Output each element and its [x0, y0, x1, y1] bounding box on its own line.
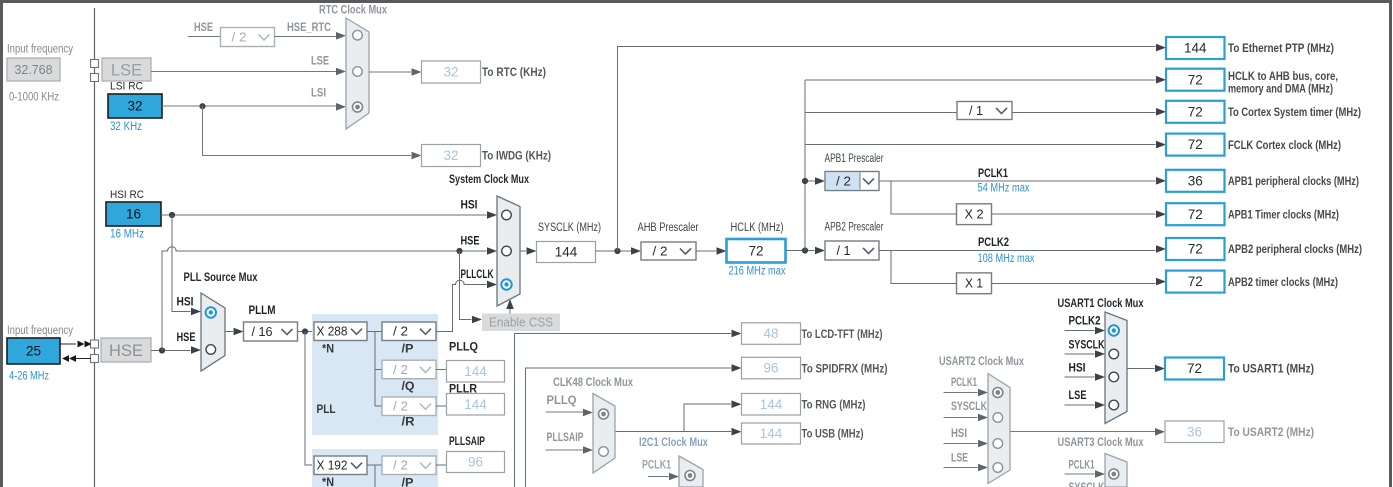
USART1 clock mux	[1105, 312, 1127, 424]
svg-text:PLLM: PLLM	[249, 305, 276, 317]
label *N (pllsai)	[322, 477, 334, 487]
label SYSCLK (usart3, clipped)	[1069, 482, 1106, 487]
label PCLK2	[978, 237, 1009, 249]
label HSI (usart2)	[951, 428, 967, 440]
label 108 MHz max	[978, 253, 1035, 265]
label HSI RC	[110, 189, 144, 201]
svg-text:Enable CSS: Enable CSS	[489, 315, 553, 330]
svg-text:LSE: LSE	[311, 56, 329, 68]
svg-text:LSE: LSE	[951, 453, 968, 465]
svg-text:To Ethernet PTP (MHz): To Ethernet PTP (MHz)	[1228, 41, 1334, 55]
wire PLLM down to PLLSAI	[305, 332, 314, 466]
svg-text:To USART2 (MHz): To USART2 (MHz)	[1228, 425, 1314, 439]
label APB1 Timer clocks (MHz)	[1228, 207, 1339, 221]
svg-text:HCLK (MHz): HCLK (MHz)	[731, 222, 784, 234]
label To Ethernet PTP (MHz)	[1228, 41, 1334, 55]
svg-text:32: 32	[127, 99, 142, 114]
svg-text:PLLCLK: PLLCLK	[461, 269, 495, 281]
wire HSI to usart1 mux	[1065, 373, 1106, 381]
junction LSI branch	[199, 103, 205, 109]
svg-text:HSI: HSI	[461, 200, 478, 212]
svg-text:/ 2: / 2	[393, 459, 408, 473]
USART3 clock mux	[1105, 454, 1127, 487]
divider APB2 /1	[825, 241, 879, 260]
label PLLCLK	[461, 269, 495, 281]
wire X1 to timer box	[992, 278, 1167, 286]
label To Cortex System timer (MHz)	[1228, 105, 1361, 119]
LSI RC box 32	[108, 94, 162, 118]
wire PCLK2 to usart1 mux	[1065, 327, 1106, 335]
svg-text:16 MHz: 16 MHz	[110, 229, 144, 241]
wire HCLK to cortex divider	[805, 111, 957, 113]
svg-text:36: 36	[1187, 424, 1202, 439]
svg-text:HSE_RTC: HSE_RTC	[287, 22, 331, 34]
svg-text:/ 2: / 2	[393, 400, 408, 414]
wire APB1 to peripheral box	[879, 177, 1166, 185]
label /P (pllsai, clipped)	[402, 478, 414, 487]
svg-text:LSE: LSE	[1069, 390, 1087, 402]
junction PLLM output	[302, 328, 308, 334]
label Input frequency (LSE)	[7, 44, 73, 56]
svg-text:SYSCLK (MHz): SYSCLK (MHz)	[538, 222, 601, 234]
divider PLLP /2	[382, 322, 436, 341]
HSI RC box 16	[106, 202, 161, 226]
svg-text:/ 1: / 1	[837, 244, 851, 258]
label LSE (rtc input)	[311, 56, 329, 68]
svg-text:32: 32	[443, 148, 458, 163]
multiplier X 1	[957, 273, 992, 294]
svg-text:To IWDG (KHz): To IWDG (KHz)	[482, 149, 551, 163]
wire CLK48 to RNG	[684, 400, 742, 431]
wire HCLK to AHB bus box	[805, 76, 1166, 84]
svg-text:PCLK1: PCLK1	[978, 168, 1008, 180]
svg-text:To LCD-TFT (MHz): To LCD-TFT (MHz)	[802, 327, 883, 341]
svg-text:X 288: X 288	[317, 325, 348, 339]
wire HSE_RTC to rtc mux	[275, 32, 347, 40]
svg-text:108 MHz max: 108 MHz max	[978, 253, 1035, 265]
label 0-1000 KHz	[9, 92, 59, 104]
wire HCLK to FCLK box	[805, 141, 1166, 149]
divider PLLR /2	[382, 397, 436, 416]
svg-text:72: 72	[1188, 72, 1203, 87]
wire PLLSAIN to dividers	[367, 465, 382, 487]
divider PLLM /16	[244, 322, 298, 341]
svg-text:To RTC (KHz): To RTC (KHz)	[482, 65, 546, 79]
label LSE (usart1)	[1069, 390, 1087, 402]
title USART3 Clock Mux	[1058, 435, 1144, 449]
label HSE_RTC	[287, 22, 331, 34]
label To USART1 (MHz)	[1228, 362, 1314, 376]
svg-text:96: 96	[763, 361, 778, 376]
divider APB1 /2	[825, 172, 879, 191]
svg-text:SYSCLK: SYSCLK	[951, 401, 988, 413]
label HSE (rtc stub)	[194, 22, 213, 34]
svg-text:HSE: HSE	[109, 342, 143, 360]
label HCLK to AHB bus, core,	[1228, 69, 1338, 96]
svg-text:memory and DMA (MHz): memory and DMA (MHz)	[1228, 82, 1333, 96]
USART2 clock mux	[988, 374, 1010, 484]
label To RNG (MHz)	[802, 398, 866, 412]
wire Enable CSS to system mux	[506, 299, 514, 314]
label FCLK Cortex clock (MHz)	[1228, 138, 1341, 152]
junction HSE branch	[159, 347, 165, 353]
LSE connection handle top	[91, 60, 99, 68]
svg-text:/ 2: / 2	[836, 174, 851, 188]
svg-text:HSE: HSE	[194, 22, 213, 34]
svg-text:Input frequency: Input frequency	[7, 325, 73, 337]
label /Q (pll)	[402, 381, 415, 393]
label To RTC (KHz)	[482, 65, 546, 79]
svg-text:USART1 Clock Mux: USART1 Clock Mux	[1058, 296, 1144, 310]
svg-text:PLLSAIP: PLLSAIP	[547, 432, 584, 444]
wire AHB to HCLK box	[696, 247, 727, 255]
svg-text:APB2 peripheral clocks (MHz): APB2 peripheral clocks (MHz)	[1228, 242, 1362, 256]
divider /2 HSE_RTC	[221, 28, 275, 47]
wire APB1 to X2	[891, 181, 957, 214]
svg-text:PLL Source Mux: PLL Source Mux	[184, 270, 258, 284]
wire X2 to timer box	[992, 210, 1167, 218]
svg-text:HSE: HSE	[177, 332, 196, 344]
divider AHB /2	[641, 242, 696, 260]
wire PLLQ stub to clk48 mux	[546, 409, 594, 417]
output box To RTC	[422, 61, 481, 83]
input box 25	[7, 338, 60, 364]
label PLLSAIP	[449, 436, 485, 448]
svg-text:System Clock Mux: System Clock Mux	[449, 172, 529, 186]
label HSI (sys input)	[461, 200, 478, 212]
label /P (pll)	[402, 344, 414, 356]
svg-text:48: 48	[763, 326, 778, 341]
wire PCLK1 to usart2 mux	[944, 389, 989, 397]
label To LCD-TFT (MHz)	[802, 327, 883, 341]
wire usart2 mux to USART2 box	[1010, 428, 1165, 436]
svg-text:HSI: HSI	[1069, 363, 1086, 375]
Enable CSS button	[482, 314, 560, 332]
svg-text:25: 25	[26, 344, 41, 359]
svg-text:LSI RC: LSI RC	[110, 81, 143, 93]
output box APB1 Timer clocks (MHz)	[1166, 203, 1225, 225]
svg-text:APB1 Timer clocks (MHz): APB1 Timer clocks (MHz)	[1228, 207, 1339, 221]
value box HCLK 72	[727, 239, 786, 263]
svg-text:Input frequency: Input frequency	[7, 44, 73, 56]
title I2C1 Clock Mux	[639, 435, 708, 449]
label SYSCLK (usart1)	[1069, 340, 1106, 352]
label PLLQ (clk48 input)	[547, 395, 577, 407]
label PLLR	[449, 384, 478, 396]
svg-text:32 KHz: 32 KHz	[110, 121, 142, 133]
value box SYSCLK 144	[537, 242, 596, 263]
wire SYSCLK up to ethernet ptp	[618, 44, 1167, 251]
output box APB2 timer clocks (MHz)	[1166, 271, 1225, 293]
value box PLLSAIP 96	[447, 452, 505, 473]
output box To SPIDFRX	[742, 357, 801, 379]
wire HCLK bus up	[804, 80, 806, 251]
svg-text:PLLSAIP: PLLSAIP	[449, 436, 485, 448]
system clock mux	[497, 196, 520, 306]
label HSI (usart1)	[1069, 363, 1086, 375]
svg-text:I2C1 Clock Mux: I2C1 Clock Mux	[639, 435, 708, 449]
svg-text:/ 2: / 2	[653, 244, 668, 258]
label 216 MHz max	[729, 266, 786, 278]
wire HSI down to pll mux	[172, 215, 201, 315]
wire PLLP to system mux (hop over css wire)	[436, 280, 497, 331]
wire PLLSAIP stub to clk48 mux	[546, 446, 594, 454]
wire system mux to SYSCLK box	[520, 247, 537, 255]
label PLLSAIP (clk48 input)	[547, 432, 584, 444]
HSE connection handle top	[91, 340, 99, 348]
svg-text:/R: /R	[402, 417, 416, 429]
wire LSE to usart2 mux	[944, 464, 989, 472]
svg-text:144: 144	[464, 397, 487, 412]
wire SYSCLK to usart2 mux	[944, 414, 989, 422]
title PLL Source Mux	[184, 270, 258, 284]
output box APB2 peripheral clocks (MHz)	[1166, 238, 1225, 260]
svg-text:PCLK1: PCLK1	[951, 377, 977, 389]
svg-text:72: 72	[748, 243, 763, 258]
divider Cortex /1	[957, 102, 1012, 120]
label APB2 Prescaler	[825, 222, 884, 234]
svg-text:16: 16	[126, 207, 141, 222]
svg-text:HSI RC: HSI RC	[110, 189, 144, 201]
wire PLLSAI to LCD-TFT	[515, 330, 742, 487]
label To USB (MHz)	[802, 427, 864, 441]
title USART2 Clock Mux	[939, 354, 1024, 368]
svg-text:PCLK1: PCLK1	[642, 460, 671, 472]
output box To LCD-TFT	[742, 323, 801, 345]
label 54 MHz max	[978, 183, 1030, 195]
label SYSCLK (usart2)	[951, 401, 988, 413]
wire SYSCLK to usart1 mux	[1065, 350, 1106, 358]
wire HSE stub to rtc divider	[188, 36, 221, 38]
label LSI (rtc input)	[311, 88, 326, 100]
output box To IWDG	[422, 145, 481, 167]
svg-text:72: 72	[1188, 207, 1203, 222]
label 16 MHz	[110, 229, 144, 241]
label PCLK1 (i2c1 input)	[642, 460, 671, 472]
multiplier X 2	[957, 204, 992, 225]
wire HSI to system mux	[161, 211, 497, 219]
wire HSE to 25 return	[62, 355, 91, 362]
junction SYSCLK output	[614, 248, 620, 254]
svg-text:*N: *N	[322, 477, 334, 487]
label APB2 peripheral clocks (MHz)	[1228, 242, 1362, 256]
junction HCLK output	[802, 247, 808, 253]
label PLL	[317, 404, 336, 416]
svg-text:144: 144	[555, 245, 578, 260]
title System Clock Mux	[449, 172, 529, 186]
wire CLK48 mux to USB	[615, 428, 742, 436]
svg-text:PLL: PLL	[317, 404, 336, 416]
label To USART2 (MHz)	[1228, 425, 1314, 439]
wire HSI to usart2 mux	[944, 440, 989, 448]
wire PLLM to PLLN	[298, 331, 315, 333]
label PCLK1 (usart3)	[1069, 460, 1095, 472]
svg-text:72: 72	[1188, 274, 1203, 289]
multiplier PLLSAIN X 192	[314, 456, 367, 475]
HSE connection handle bottom	[91, 355, 99, 363]
svg-text:APB2 Prescaler: APB2 Prescaler	[825, 222, 884, 234]
svg-text:0-1000 KHz: 0-1000 KHz	[9, 92, 59, 104]
svg-text:FCLK Cortex clock (MHz): FCLK Cortex clock (MHz)	[1228, 138, 1341, 152]
label APB2 timer clocks (MHz)	[1228, 275, 1338, 289]
wire HSE up to system mux (hop over HSI)	[162, 247, 497, 351]
svg-text:/Q: /Q	[402, 381, 415, 393]
output box HCLK to AHB bus, core,	[1166, 69, 1225, 91]
svg-text:/ 2: / 2	[232, 30, 247, 44]
wire HSE to pll mux	[151, 346, 201, 354]
junction HSI branch	[169, 212, 175, 218]
wire APB2 to X1	[891, 251, 957, 284]
svg-text:/ 2: / 2	[393, 325, 408, 339]
label Input frequency (HSE)	[7, 325, 73, 337]
PLL block background	[312, 314, 438, 435]
svg-text:PCLK1: PCLK1	[1069, 460, 1095, 472]
wire PLLR to box	[436, 405, 447, 407]
label LSE (usart2)	[951, 453, 968, 465]
output box To USART2	[1165, 421, 1224, 443]
svg-text:PCLK2: PCLK2	[978, 237, 1009, 249]
svg-text:PLLQ: PLLQ	[449, 342, 478, 354]
svg-text:X 1: X 1	[965, 277, 983, 291]
output box To RNG	[742, 394, 801, 416]
svg-text:72: 72	[1188, 137, 1203, 152]
label PCLK2 (usart1)	[1069, 316, 1101, 328]
PLL source mux	[201, 293, 225, 371]
CLK48 clock mux	[593, 394, 615, 474]
svg-text:/ 1: / 1	[969, 104, 983, 118]
LSE oscillator box	[102, 58, 151, 81]
svg-text:96: 96	[468, 455, 483, 470]
svg-text:144: 144	[1184, 41, 1207, 56]
svg-text:To SPIDFRX (MHz): To SPIDFRX (MHz)	[802, 361, 888, 375]
svg-text:To Cortex System timer (MHz): To Cortex System timer (MHz)	[1228, 105, 1361, 119]
label HSE (pll input)	[177, 332, 196, 344]
wire HSE to Enable CSS	[460, 251, 483, 323]
svg-text:LSI: LSI	[311, 88, 326, 100]
wire PLLSAIP to box	[436, 464, 447, 466]
wire PLLN to dividers	[367, 332, 382, 407]
svg-text:72: 72	[1187, 361, 1202, 376]
svg-text:SYSCLK: SYSCLK	[1069, 482, 1106, 487]
label To SPIDFRX (MHz)	[802, 361, 888, 375]
junction HSE css branch	[456, 248, 462, 254]
svg-text:32: 32	[443, 65, 458, 80]
label LSI RC	[110, 81, 143, 93]
wire PLLQ to box	[436, 369, 447, 371]
wire rtc mux to RTC box	[369, 68, 422, 76]
multiplier PLLN X 288	[314, 322, 367, 341]
svg-text:/ 2: / 2	[393, 363, 408, 377]
svg-text:4-26 MHz: 4-26 MHz	[9, 371, 49, 383]
wire PCLK1 stub to i2c1 mux	[648, 473, 679, 481]
title CLK48 Clock Mux	[553, 375, 633, 389]
I2C1 clock mux	[679, 456, 703, 487]
label SYSCLK (MHz)	[538, 222, 601, 234]
RTC clock mux	[346, 18, 369, 129]
svg-text:APB1 Prescaler: APB1 Prescaler	[825, 153, 884, 165]
label *N (pll)	[322, 344, 334, 356]
HSE oscillator box	[101, 338, 151, 362]
svg-text:216 MHz max: 216 MHz max	[729, 266, 786, 278]
svg-text:/P: /P	[402, 478, 414, 487]
title RTC Clock Mux	[319, 3, 387, 17]
title USART1 Clock Mux	[1058, 296, 1144, 310]
value box PLLR 144	[447, 394, 505, 416]
wire SYSCLK to AHB prescaler	[596, 247, 642, 255]
label APB1 Prescaler	[825, 153, 884, 165]
label PLLM	[249, 305, 276, 317]
panel boundary vertical line	[94, 8, 96, 487]
wire HCLK bus to APB1	[805, 177, 825, 185]
wire usart1 mux to USART1 box	[1127, 365, 1165, 373]
wire pll mux to PLLM	[225, 328, 244, 336]
svg-text:RTC Clock Mux: RTC Clock Mux	[319, 3, 387, 17]
svg-text:USART2 Clock Mux: USART2 Clock Mux	[939, 354, 1024, 368]
wire 25 to HSE forward	[60, 341, 92, 348]
svg-text:To USB (MHz): To USB (MHz)	[802, 427, 864, 441]
svg-text:To USART1 (MHz): To USART1 (MHz)	[1228, 362, 1314, 376]
svg-text:54 MHz max: 54 MHz max	[978, 183, 1030, 195]
output box To Cortex System timer (MHz)	[1166, 101, 1225, 123]
svg-text:HSI: HSI	[177, 297, 194, 309]
junction APB1 branch	[802, 178, 808, 184]
label HSE (sys input)	[461, 236, 480, 248]
svg-text:144: 144	[464, 364, 487, 379]
svg-text:SYSCLK: SYSCLK	[1069, 340, 1106, 352]
svg-text:*N: *N	[322, 344, 334, 356]
divider PLLQ /2	[382, 360, 436, 379]
wire APB2 to peripheral box	[879, 245, 1166, 253]
svg-text:HSI: HSI	[951, 428, 967, 440]
svg-text:X 2: X 2	[965, 208, 984, 222]
LSE connection handle bottom	[91, 74, 99, 82]
label HCLK (MHz)	[731, 222, 784, 234]
input box 32.768	[7, 58, 60, 81]
svg-text:AHB Prescaler: AHB Prescaler	[638, 222, 699, 234]
value box PLLQ 144	[447, 361, 505, 383]
label APB1 peripheral clocks (MHz)	[1228, 174, 1359, 188]
wire cortex divider to box	[1012, 108, 1166, 116]
label AHB Prescaler	[638, 222, 699, 234]
wire HCLK to APB2 prescaler	[786, 247, 826, 255]
label To IWDG (KHz)	[482, 149, 551, 163]
svg-text:144: 144	[760, 426, 783, 441]
PLLSAI block background	[312, 449, 438, 487]
wire PLLI2S to SPDIFRX	[526, 364, 742, 487]
svg-text:PCLK2: PCLK2	[1069, 316, 1101, 328]
svg-text:/P: /P	[402, 344, 414, 356]
divider PLLSAIP /2	[382, 456, 436, 475]
label HSI (pll input)	[177, 297, 194, 309]
label 4-26 MHz	[9, 371, 49, 383]
svg-text:/ 16: / 16	[252, 325, 273, 339]
svg-text:32.768: 32.768	[15, 62, 53, 77]
svg-text:APB2 timer clocks (MHz): APB2 timer clocks (MHz)	[1228, 275, 1338, 289]
output box FCLK Cortex clock (MHz)	[1166, 134, 1225, 156]
label /R (pll)	[402, 417, 416, 429]
label PLLQ	[449, 342, 478, 354]
wire LSE to rtc mux	[151, 68, 346, 76]
svg-text:X 192: X 192	[317, 459, 348, 473]
output box To USB	[742, 423, 801, 444]
output box To Ethernet PTP (MHz)	[1166, 37, 1225, 59]
svg-text:PLLQ: PLLQ	[547, 395, 577, 407]
label PCLK1	[978, 168, 1008, 180]
svg-text:72: 72	[1188, 104, 1203, 119]
wire LSI to IWDG box	[203, 106, 422, 159]
svg-text:APB1 peripheral clocks (MHz): APB1 peripheral clocks (MHz)	[1228, 174, 1359, 188]
label 32 KHz	[110, 121, 142, 133]
